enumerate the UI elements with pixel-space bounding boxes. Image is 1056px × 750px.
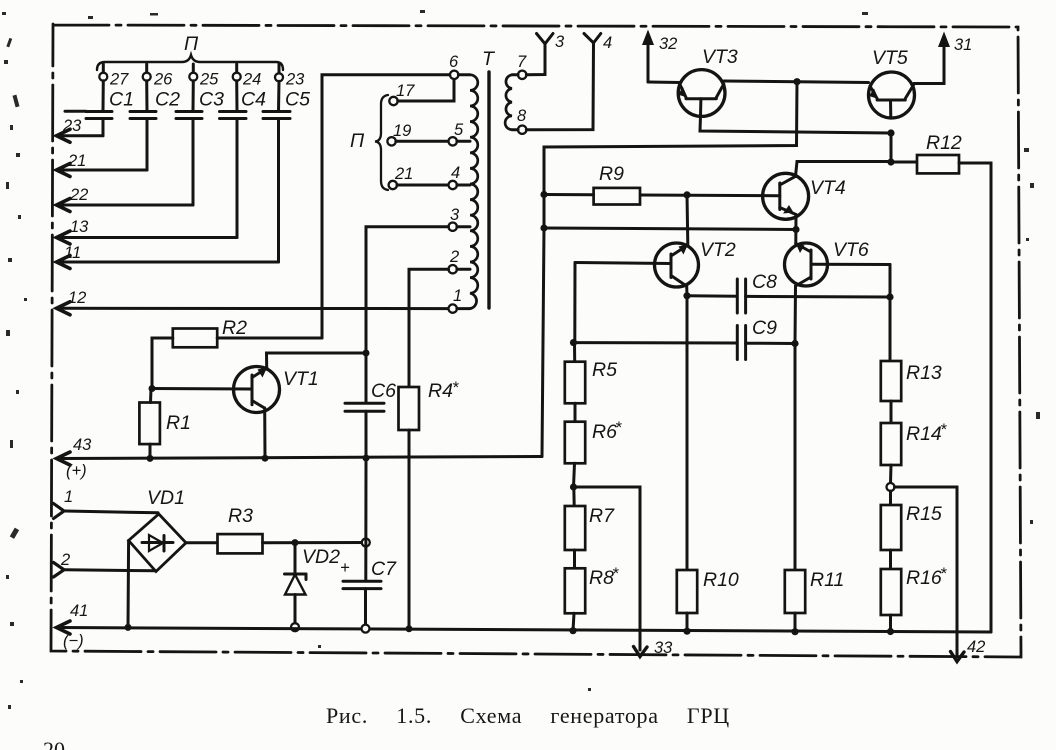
resistor R2 [152,317,322,389]
transistor VT1 [152,367,319,413]
resistor R13 [881,361,942,423]
node junction C8-right [886,293,893,300]
node arrow 13 [57,218,238,244]
page number 20 [43,737,65,750]
node junction R5-C9 [570,339,577,346]
svg-text:25: 25 [199,71,219,89]
pin 24 [233,71,262,89]
wire VT2 collector riser [686,195,690,244]
svg-text:R16: R16 [906,567,942,589]
svg-text:1: 1 [64,488,73,506]
svg-text:41: 41 [70,602,88,620]
svg-text:C2: C2 [155,89,180,111]
svg-text:42: 42 [967,638,985,656]
wire node to arrow 33 [574,487,674,657]
wire VT1 emitter down [263,408,266,459]
node junction VT2-C8 [683,292,690,299]
wire tap3 to C6 branch [366,227,449,353]
input terminal 1 [54,488,159,519]
transformer T secondary winding [505,75,512,130]
wire top rail riser [544,82,797,228]
svg-text:11: 11 [64,244,81,262]
svg-text:Рис. 1.5. Схема генератора ГРЦ: Рис. 1.5. Схема генератора ГРЦ [326,703,730,728]
svg-text:C7: C7 [371,558,397,580]
svg-text:23: 23 [62,117,82,135]
resistor R8* [565,550,619,631]
svg-text:5: 5 [454,121,464,139]
svg-text:C5: C5 [285,89,310,111]
svg-text:T: T [482,48,496,70]
svg-text:6: 6 [449,53,459,71]
svg-text:C3: C3 [199,89,224,111]
tap 2 [449,248,471,273]
svg-text:C6: C6 [371,380,396,402]
svg-text:VT3: VT3 [702,46,738,68]
wire VT6 emitter down [794,286,798,344]
resistor R1 [139,389,191,459]
diode bridge VD1 [129,487,186,572]
svg-text:24: 24 [242,71,261,89]
wire VT2 base riser [573,263,576,343]
wire VT1 collector to C6 node [267,353,367,368]
node arrow 23 [57,117,104,142]
svg-text:33: 33 [654,639,673,657]
contact 17 [389,79,454,105]
tap 6 [449,53,470,79]
resistor R3 [186,505,366,553]
wire VT4 collector to R12 node [796,162,892,177]
wire VT2 emitter to C8 node [685,286,688,296]
wire VT6 base riser to R13 [889,265,892,362]
svg-text:*: * [940,565,947,583]
svg-text:32: 32 [659,35,677,53]
node junction R9 left rail [540,191,547,198]
svg-text:R14: R14 [906,423,942,445]
resistor R6* [565,403,622,487]
tap 5 [449,121,471,146]
svg-text:26: 26 [153,71,173,89]
resistor R9 [544,163,640,205]
svg-text:*: * [612,565,619,583]
svg-text:2: 2 [60,551,70,569]
wire rail 43 riser [542,228,544,457]
svg-text:23: 23 [285,71,305,89]
svg-text:П: П [350,130,365,152]
wire VT3 collector to VT5 [724,81,869,83]
input terminal 2 [54,551,157,577]
svg-text:2: 2 [449,248,459,266]
wire rail to VT4 emitter line [544,228,796,230]
node junction VT1-43 [262,455,269,462]
pin 8 [512,107,527,134]
svg-text:R12: R12 [926,132,962,154]
resistor R16* [881,550,947,632]
node arrow 41 minus line [57,602,992,650]
svg-text:R4: R4 [428,380,453,402]
node junction VT6-C9 [791,340,798,347]
transistor VT6 [785,239,891,286]
svg-text:R2: R2 [222,317,247,339]
capacitor C4 [220,81,267,238]
svg-text:*: * [615,419,622,437]
pin 27 [99,71,129,89]
svg-text:C4: C4 [241,89,266,111]
resistor R10 [677,569,739,631]
transistor VT3 [648,46,738,116]
tap 1 [449,287,471,313]
svg-text:R11: R11 [810,569,844,591]
svg-text:VT2: VT2 [700,239,736,261]
svg-text:R7: R7 [589,505,615,527]
node junction tap3wire-VT1 [363,350,370,357]
node junction rail-228 [540,224,547,231]
contact 19 [387,122,448,146]
tap 3 [449,206,471,231]
terminal arrow 32 [642,30,677,83]
svg-text:C1: C1 [109,89,134,111]
svg-text:31: 31 [954,36,972,54]
node arrow 21 [57,152,148,177]
node junction VT5 stem line [887,129,894,136]
resistor R5 [565,343,617,404]
capacitor C5 [263,81,310,262]
resistor R14* [881,421,947,483]
svg-text:VT5: VT5 [872,47,908,69]
antenna 3 [526,33,565,75]
capacitor C9 [574,317,796,360]
svg-text:П: П [184,33,199,55]
node arrow 12 wire to tap 1 [57,289,449,315]
wire VT3 emitter to VT5 stem [700,116,891,133]
node arrow 22 [57,186,194,212]
pin 23 [275,71,305,89]
switch P2 brace contacts [350,95,388,190]
resistor R11 [785,569,845,632]
transformer T primary winding [470,48,496,309]
node junction R6-R7 [570,483,577,490]
svg-text:VD2: VD2 [302,546,340,568]
wire tap6 to R2 riser [322,75,450,338]
svg-text:R3: R3 [228,505,253,527]
terminal circle VD2 minus [291,623,299,631]
svg-text:4: 4 [603,34,612,52]
terminal circle R14-R15 [887,483,895,491]
terminal arrow 31 [914,32,973,84]
svg-text:R5: R5 [592,359,617,381]
svg-text:R9: R9 [599,163,624,185]
svg-text:4: 4 [451,164,460,182]
svg-text:7: 7 [517,53,527,71]
svg-text:1: 1 [453,287,462,305]
wire VD1 left vertex to minus line [127,541,131,628]
node junction R10-41 [683,628,690,635]
resistor R12 [891,132,991,632]
svg-text:R15: R15 [906,503,942,525]
node arrow 11 [57,244,279,269]
svg-text:(+): (+) [66,462,87,480]
node junction R16-41 [887,628,894,635]
svg-text:3: 3 [450,206,460,224]
contact 21 [389,165,449,189]
svg-text:13: 13 [70,218,89,236]
svg-text:R8: R8 [589,567,614,589]
svg-text:R6: R6 [592,421,617,443]
node junction C6-43 [363,455,370,462]
node junction R8-41 [569,627,576,634]
pin 26 [143,71,173,89]
svg-text:20: 20 [43,737,65,750]
terminal circle C7 top [362,539,370,547]
capacitor C2 [130,81,180,170]
capacitor C6 [345,353,396,458]
zener diode VD2 [285,543,341,623]
transistor VT5 [869,47,915,118]
svg-text:R1: R1 [166,412,191,434]
wire node to arrow 42 [895,487,986,662]
wire tap2 to R4 branch [409,269,449,387]
node junction R4-41 [406,625,413,632]
switch P top brace [97,33,283,74]
node junction top collector line [793,78,800,85]
svg-text:VT4: VT4 [810,177,846,199]
pin 25 [189,71,219,89]
wire VT2 node to R10 [686,296,689,570]
svg-text:*: * [940,421,947,439]
transistor VT4 [640,173,846,219]
svg-text:21: 21 [394,165,413,183]
capacitor C1 [65,81,134,136]
svg-text:C9: C9 [752,317,777,339]
capacitor C3 [176,81,224,205]
node junction R2-R1-VT1 [149,385,156,392]
node junction R1-43 [147,455,154,462]
svg-text:VT1: VT1 [283,368,319,390]
node arrow 43 plus line [57,436,543,480]
pin 7 [512,53,527,79]
svg-text:19: 19 [393,122,411,140]
svg-text:43: 43 [73,436,92,454]
transistor VT2 [575,239,736,287]
resistor R15 [881,491,942,550]
node junction R12 left [887,158,894,165]
svg-text:(−): (−) [63,632,84,650]
svg-text:R10: R10 [703,569,739,591]
svg-text:+: + [340,559,350,577]
svg-text:22: 22 [69,186,88,204]
svg-text:17: 17 [396,82,415,100]
svg-text:8: 8 [517,107,527,125]
node junction R3-VD2 [292,539,299,546]
svg-text:3: 3 [555,33,565,51]
wire VT5 stem to R12 node [890,133,893,163]
svg-text:*: * [452,379,459,397]
node junction R11-41 [791,628,798,635]
wire VT4 emitter node riser [794,215,797,244]
transformer core [487,72,490,308]
svg-text:27: 27 [109,71,129,89]
svg-text:VD1: VD1 [147,487,185,509]
caption figure title [326,703,730,728]
antenna 4 [526,34,612,130]
svg-text:R13: R13 [906,362,942,384]
resistor R4* [399,379,460,628]
node junction VT4-VT6 [792,226,799,233]
node junction VD1-41 [125,624,132,631]
node junction R9 VT2 riser [683,191,690,198]
capacitor C8 [687,271,890,313]
svg-text:C8: C8 [752,271,777,293]
svg-text:12: 12 [68,289,86,307]
resistor R7 [565,487,615,550]
tap 4 [449,164,471,189]
svg-text:21: 21 [67,152,86,170]
capacitor C7 polarized [340,458,397,628]
terminal circle C7 bottom [362,625,370,633]
svg-text:VT6: VT6 [833,239,869,261]
wire VT6 node to R11 [794,344,797,571]
